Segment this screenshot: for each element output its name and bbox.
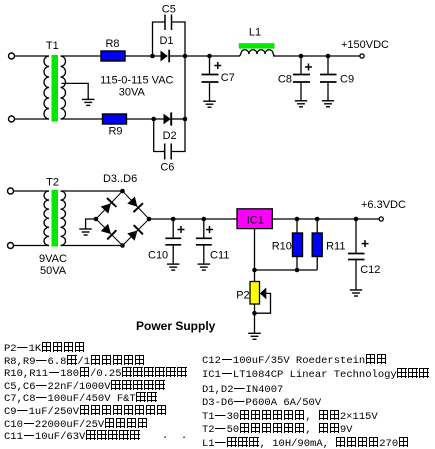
parts list: D3-D6 spec: [202, 396, 321, 409]
diode D (bridge, lower-left): [100, 223, 117, 240]
svg-text:R10: R10: [272, 241, 292, 253]
wire: P2 bottom to ground: [254, 304, 256, 333]
plus sign C10: [178, 226, 185, 233]
transformer T1 core: [52, 55, 59, 122]
svg-text:C6: C6: [160, 161, 174, 173]
parts list: C11 spec: [4, 430, 140, 443]
wire: bridge output to IC1: [149, 218, 237, 220]
resistor R11: [312, 233, 322, 257]
svg-text:R11: R11: [326, 241, 345, 253]
svg-text:T2: T2: [46, 177, 59, 189]
wire: C6 left lead: [154, 119, 165, 152]
parts list: C5,C6 spec: [4, 380, 166, 393]
parts list: D1,D2 spec: [202, 383, 283, 396]
wire: lower input to T2 primary: [14, 245, 49, 247]
svg-text:P2: P2: [236, 290, 249, 302]
svg-text:C11: C11: [210, 250, 229, 262]
wire: C5 right lead: [172, 22, 186, 56]
ground (T1 center tap): [82, 99, 95, 105]
bridge rectifier D3..D6 diamond: [96, 191, 149, 246]
wire: C5 left lead: [153, 22, 166, 56]
transformer T1 primary winding: [44, 56, 49, 119]
diode D (bridge, upper-right): [126, 196, 143, 212]
junction: bridge top node: [120, 189, 125, 194]
svg-text:9VAC: 9VAC: [39, 253, 67, 265]
potentiometer P2 wiper arrow: [260, 288, 267, 300]
svg-text:D3..D6: D3..D6: [103, 173, 137, 185]
wire: D1 cathode to +rail node: [169, 55, 185, 57]
junction: bridge bottom node: [120, 243, 125, 248]
wire: R9 to D2 anode: [127, 118, 164, 120]
junction: P2 wiper tie node: [252, 311, 257, 316]
junction: C7 node: [207, 54, 212, 59]
capacitor C5: [165, 15, 172, 31]
input terminal (top left, upper): [9, 53, 15, 59]
ground (C10): [167, 264, 180, 270]
parts list: C12 spec: [202, 354, 387, 367]
wire: bridge left node to ground: [86, 219, 96, 229]
svg-text:C7: C7: [221, 72, 235, 84]
wire: L1 to +150VDC terminal: [273, 55, 360, 57]
parts list: R8,R9 spec: [4, 355, 145, 368]
svg-text:C8: C8: [278, 73, 292, 85]
plus sign C7: [214, 62, 221, 69]
svg-text:IC1: IC1: [247, 215, 264, 227]
junction: C10 node: [171, 217, 176, 222]
plus sign C8: [305, 64, 312, 71]
output terminal +150VDC: [360, 54, 364, 58]
junction: IC1 adj / R10 bottom node: [252, 268, 257, 273]
potentiometer P2: [250, 282, 260, 305]
wire: R11 bottom lead: [316, 257, 318, 271]
ground (C12): [350, 290, 362, 296]
ground (C11): [198, 264, 211, 270]
svg-text:T1: T1: [46, 40, 59, 52]
junction: bridge left node: [94, 217, 99, 222]
svg-text:D1: D1: [159, 35, 173, 47]
parts list: T2 spec: [202, 423, 352, 436]
parts list: T1 spec: [202, 410, 378, 423]
transformer T2 secondary winding: [61, 191, 66, 245]
junction: R9/D2/C6 node: [151, 117, 156, 122]
svg-text:50VA: 50VA: [40, 265, 67, 277]
inductor L1 green bar: [239, 43, 275, 48]
parts list: L1 spec: [202, 437, 409, 449]
wire: T1 secondary top to R8: [61, 55, 102, 57]
input terminal (top left, lower): [9, 116, 15, 122]
wire: T2 secondary bottom to bridge: [61, 245, 123, 247]
junction: C9 node: [326, 54, 331, 59]
junction: R11 top node: [315, 217, 320, 222]
svg-text:30VA: 30VA: [119, 87, 146, 99]
junction: D1 cathode node: [183, 54, 188, 59]
svg-text:+6.3VDC: +6.3VDC: [361, 199, 406, 211]
junction: D2 cathode node: [183, 117, 188, 122]
output terminal +6.3VDC: [379, 217, 383, 221]
parts list: P2 spec: [4, 342, 85, 355]
capacitor C8: [293, 56, 310, 101]
capacitor C12: [348, 219, 365, 290]
wire: IC1 adjust pin down to P2: [254, 229, 256, 282]
svg-text:C12: C12: [360, 264, 380, 276]
input terminal (bottom left, lower): [8, 243, 14, 249]
transformer T1 secondary winding: [61, 56, 66, 119]
junction: bridge right node: [147, 217, 152, 222]
resistor R8: [101, 51, 125, 61]
transformer T2 core: [52, 190, 59, 247]
resistor R9: [103, 114, 127, 124]
plus sign C11: [206, 226, 213, 233]
svg-text:C5: C5: [162, 3, 176, 15]
svg-text:C10: C10: [148, 250, 168, 262]
capacitor C11: [196, 219, 212, 264]
stray dots after C11 line: [162, 430, 187, 442]
plus sign C12: [362, 240, 369, 247]
regulator IC1: [237, 209, 272, 229]
svg-text:115-0-115 VAC: 115-0-115 VAC: [100, 75, 173, 87]
inductor L1: [240, 50, 275, 56]
junction: R8/D1/C5 node: [150, 54, 155, 59]
wire: T1 secondary bottom to R9: [61, 118, 103, 120]
svg-text:R9: R9: [108, 126, 122, 138]
capacitor C7: [202, 56, 219, 101]
input terminal (bottom left, upper): [8, 188, 14, 194]
wire: R11 top lead: [316, 219, 318, 233]
resistor R10: [293, 233, 303, 257]
capacitor C10: [165, 219, 181, 264]
parts list: C7,C8 spec: [4, 392, 158, 405]
svg-text:R8: R8: [105, 38, 119, 50]
wire: rail to L1: [185, 55, 240, 57]
wire: R8 to D1 anode: [125, 55, 162, 57]
svg-text:+150VDC: +150VDC: [341, 39, 389, 51]
diode D1: [161, 50, 170, 63]
diode D2: [164, 112, 172, 125]
wire: P2 wiper to bottom terminal: [255, 293, 271, 313]
transformer T2 primary winding: [44, 191, 49, 245]
junction: R10 top node: [295, 217, 300, 222]
svg-text:D2: D2: [163, 130, 177, 142]
wire: IC1 output to +6.3VDC terminal: [272, 218, 379, 220]
svg-text:L1: L1: [249, 27, 261, 39]
parts list: C10 spec: [4, 418, 148, 431]
svg-text:C9: C9: [340, 73, 354, 85]
capacitor C9: [320, 56, 337, 101]
ground (C7): [203, 101, 216, 107]
wire: upper input to T2 primary: [14, 190, 49, 192]
wire: T2 secondary top to bridge: [61, 190, 123, 192]
parts list: C9 spec: [4, 405, 167, 418]
junction: C8 node: [299, 54, 304, 59]
wire: D1-D2 cathode vertical: [184, 56, 186, 119]
wire: C6 right lead: [171, 119, 185, 152]
diode D (bridge, upper-left): [100, 198, 117, 214]
wire: D2 cathode to rail: [171, 118, 185, 120]
junction: R10 bottom node: [295, 268, 300, 273]
title Power Supply: [136, 319, 215, 333]
parts list: R10,R11 spec: [4, 367, 188, 380]
wire: upper input to T1 primary: [15, 55, 49, 57]
ground (P2): [248, 333, 261, 339]
capacitor C6: [165, 144, 172, 160]
wire: adj node to R10/R11 bottoms: [255, 269, 318, 271]
parts list: IC1 spec: [202, 368, 430, 381]
junction: C12 node: [354, 217, 359, 222]
wire: R10 top lead: [296, 219, 298, 233]
ground (C9): [322, 101, 334, 107]
wire: T1 center tap to ground: [62, 83, 89, 99]
wire: lower input to T1 primary: [15, 118, 49, 120]
junction: C11 node: [202, 217, 207, 222]
ground (C8): [295, 101, 307, 107]
ground (bridge negative): [79, 229, 92, 235]
diode D (bridge, lower-right): [126, 225, 143, 242]
wire: R10 bottom lead: [296, 257, 298, 271]
